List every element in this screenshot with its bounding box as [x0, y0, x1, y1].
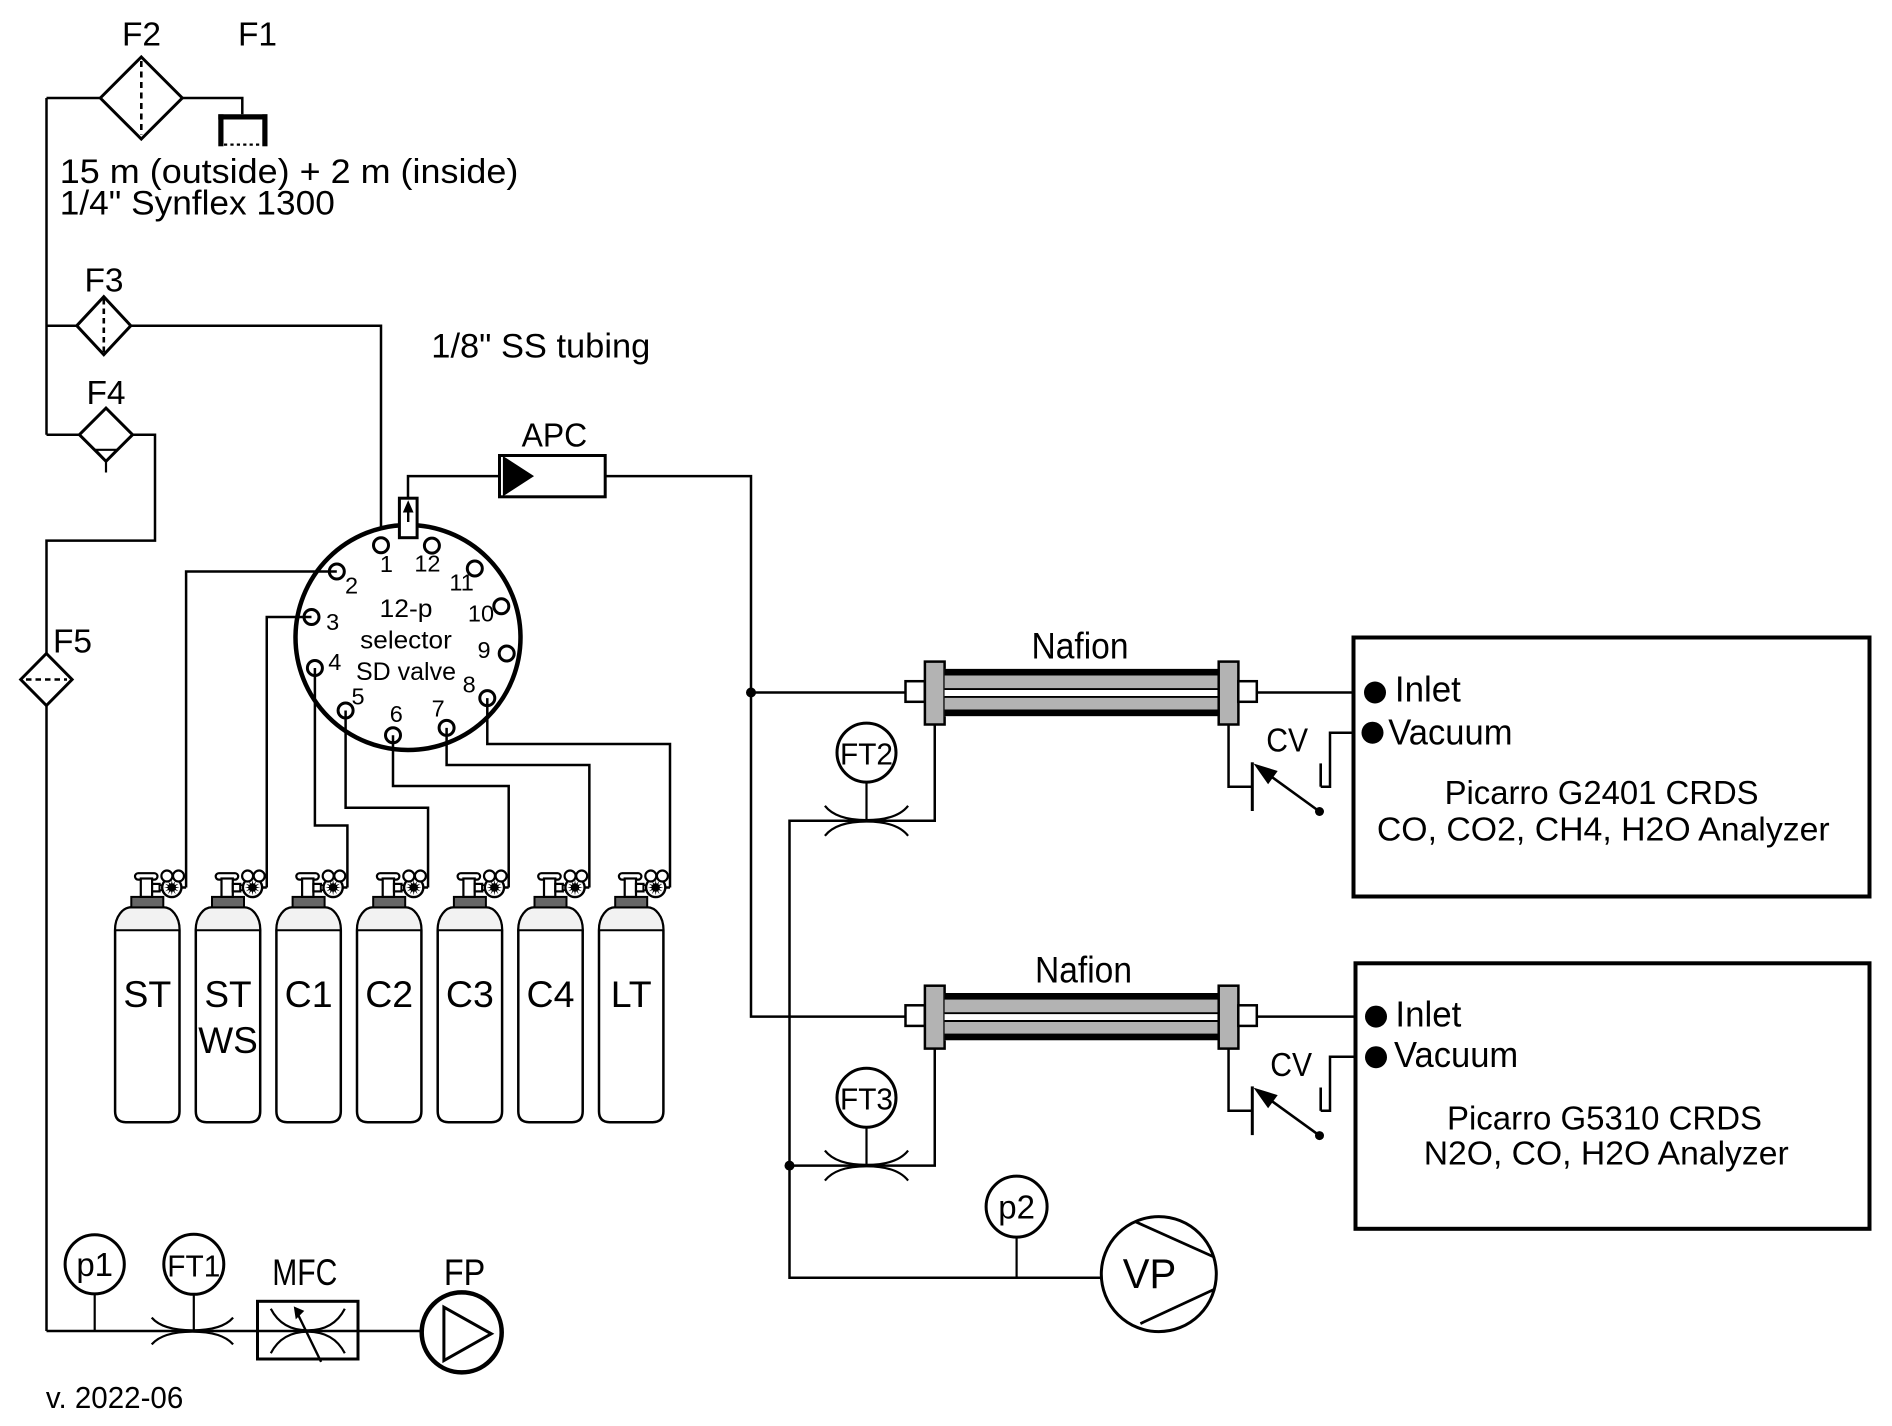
wire: FT3 branch to Nafion2 cap: [790, 1049, 935, 1166]
air inlet F1: [218, 114, 223, 146]
Picarro G5310 analyzer box: [1356, 963, 1870, 1229]
svg-text:SD valve: SD valve: [356, 658, 456, 686]
svg-text:9: 9: [477, 637, 490, 663]
APC automatic pressure controller: [500, 456, 606, 497]
svg-text:APC: APC: [522, 417, 588, 454]
svg-text:p1: p1: [76, 1246, 113, 1283]
wire: bottom main line to FP: [47, 1330, 422, 1333]
svg-text:11: 11: [449, 570, 473, 596]
filter F2: [100, 57, 182, 139]
valve port 4: [307, 661, 322, 676]
svg-text:Nafion: Nafion: [1035, 950, 1132, 991]
svg-text:F3: F3: [84, 263, 123, 300]
svg-text:ST: ST: [123, 973, 171, 1015]
wire: branch to F3: [47, 324, 77, 327]
svg-text:2: 2: [345, 573, 358, 599]
svg-text:12: 12: [414, 550, 440, 576]
wire: vacuum return line to VP: [790, 1166, 1102, 1278]
valve port 8: [480, 691, 495, 706]
svg-text:F1: F1: [238, 17, 277, 54]
wire: outside air inlet line left vertical: [47, 97, 101, 100]
svg-text:C3: C3: [446, 973, 494, 1015]
check valve CV (analyzer 2): [1229, 1049, 1253, 1111]
gas cylinder C2: [357, 907, 421, 1122]
wire: valve common to APC: [408, 476, 500, 498]
node: FT2/FT3 vacuum junction: [785, 1161, 795, 1171]
svg-text:WS: WS: [198, 1020, 258, 1061]
wire: F5 down to bottom pump line: [45, 705, 48, 1331]
valve port 10: [494, 599, 509, 614]
pressure sensor p2: [1015, 1237, 1017, 1278]
wire: tee to Nafion 1 inlet: [751, 691, 906, 694]
svg-text:10: 10: [468, 600, 494, 626]
Nafion drier 2: [906, 1005, 925, 1026]
svg-text:F2: F2: [122, 17, 161, 54]
svg-text:1: 1: [380, 551, 393, 577]
gas cylinder ST: [115, 907, 179, 1122]
wire: F3 to valve port 1: [131, 326, 381, 546]
gas cylinder C1: [276, 907, 340, 1122]
wire: Nafion1 cap to FT2 branch: [790, 725, 935, 1166]
svg-text:FT2: FT2: [840, 737, 893, 772]
valve port 12: [424, 538, 439, 553]
svg-text:F5: F5: [53, 624, 92, 661]
svg-text:12-p: 12-p: [380, 595, 433, 623]
svg-text:F4: F4: [86, 375, 125, 412]
svg-text:MFC: MFC: [272, 1252, 337, 1293]
wire: into F4: [47, 433, 80, 436]
vacuum pump VP: [1101, 1217, 1216, 1332]
svg-text:v. 2022-06: v. 2022-06: [46, 1380, 183, 1415]
pressure sensor p1: [94, 1294, 96, 1331]
svg-text:ST: ST: [204, 974, 251, 1015]
svg-text:FP: FP: [444, 1252, 485, 1293]
svg-text:p2: p2: [998, 1188, 1035, 1225]
node: tee to Nafion 1: [746, 688, 756, 698]
svg-text:CV: CV: [1270, 1047, 1312, 1084]
svg-text:7: 7: [432, 696, 445, 722]
flow transducer FT3: [837, 1068, 896, 1127]
wire: APC output down to Nafion tees: [605, 476, 905, 1017]
wire: F2 to F1: [182, 98, 242, 114]
svg-text:N2O, CO, H2O Analyzer: N2O, CO, H2O Analyzer: [1424, 1136, 1789, 1173]
svg-text:3: 3: [326, 609, 339, 635]
12-port selector SD valve body: [296, 525, 521, 750]
wire: port 5 to cylinder C2: [346, 711, 428, 888]
wire: port 8 to cylinder LT: [487, 698, 670, 887]
svg-text:8: 8: [463, 672, 476, 698]
valve port 6: [386, 728, 401, 743]
svg-text:CV: CV: [1266, 723, 1308, 760]
valve common port flow indicator: [399, 498, 417, 538]
svg-text:Inlet: Inlet: [1395, 993, 1461, 1034]
svg-text:C1: C1: [285, 973, 333, 1015]
gas cylinder ST WS: [196, 907, 260, 1122]
gas cylinder LT: [599, 907, 663, 1122]
svg-text:FT1: FT1: [167, 1248, 220, 1283]
svg-text:Picarro G5310 CRDS: Picarro G5310 CRDS: [1447, 1100, 1762, 1137]
Picarro G2401 analyzer box: [1354, 638, 1870, 897]
flow transducer FT1: [193, 1294, 195, 1331]
gas cylinder C3: [438, 907, 502, 1122]
valve port 9: [499, 646, 514, 661]
svg-text:5: 5: [351, 683, 364, 709]
filter pump FP: [422, 1292, 502, 1372]
wire: port 4 to cylinder C1: [315, 668, 348, 888]
filter F4 with drain: [79, 408, 132, 461]
check valve CV (analyzer 1): [1229, 725, 1253, 787]
filter F3: [77, 297, 131, 355]
svg-text:4: 4: [328, 649, 341, 675]
wire: port 3 to cylinder ST WS: [267, 617, 312, 888]
wire: port 6 to cylinder C3: [393, 735, 509, 887]
valve port 5: [338, 703, 353, 718]
valve port 11: [467, 561, 482, 576]
svg-text:VP: VP: [1123, 1250, 1177, 1297]
svg-text:Vacuum: Vacuum: [1394, 1034, 1518, 1075]
svg-text:Vacuum: Vacuum: [1388, 712, 1512, 753]
svg-text:LT: LT: [611, 973, 652, 1015]
svg-text:6: 6: [390, 701, 403, 727]
svg-text:CO, CO2, CH4, H2O Analyzer: CO, CO2, CH4, H2O Analyzer: [1377, 811, 1830, 848]
svg-text:C4: C4: [527, 973, 575, 1015]
mass flow controller MFC: [258, 1301, 359, 1359]
flow transducer FT2: [837, 723, 896, 782]
Nafion drier 1: [906, 681, 925, 702]
svg-text:Inlet: Inlet: [1395, 669, 1461, 710]
valve port 2: [329, 564, 344, 579]
svg-text:1/4" Synflex 1300: 1/4" Synflex 1300: [60, 185, 335, 223]
svg-text:FT3: FT3: [840, 1082, 893, 1117]
svg-text:selector: selector: [360, 626, 452, 654]
svg-text:C2: C2: [365, 973, 413, 1015]
svg-text:1/8" SS tubing: 1/8" SS tubing: [431, 328, 650, 366]
gas cylinder C4: [518, 907, 582, 1122]
filter F5: [21, 654, 72, 706]
valve port 1: [374, 538, 389, 553]
svg-text:Picarro G2401 CRDS: Picarro G2401 CRDS: [1445, 775, 1759, 812]
valve port 3: [304, 610, 319, 625]
wire: port 7 to cylinder C4: [447, 728, 590, 888]
svg-text:Nafion: Nafion: [1032, 625, 1129, 666]
wire: F4 output jog down to F5: [47, 435, 156, 654]
valve port 7: [439, 720, 454, 735]
wire: port 2 to cylinder ST: [186, 572, 337, 888]
